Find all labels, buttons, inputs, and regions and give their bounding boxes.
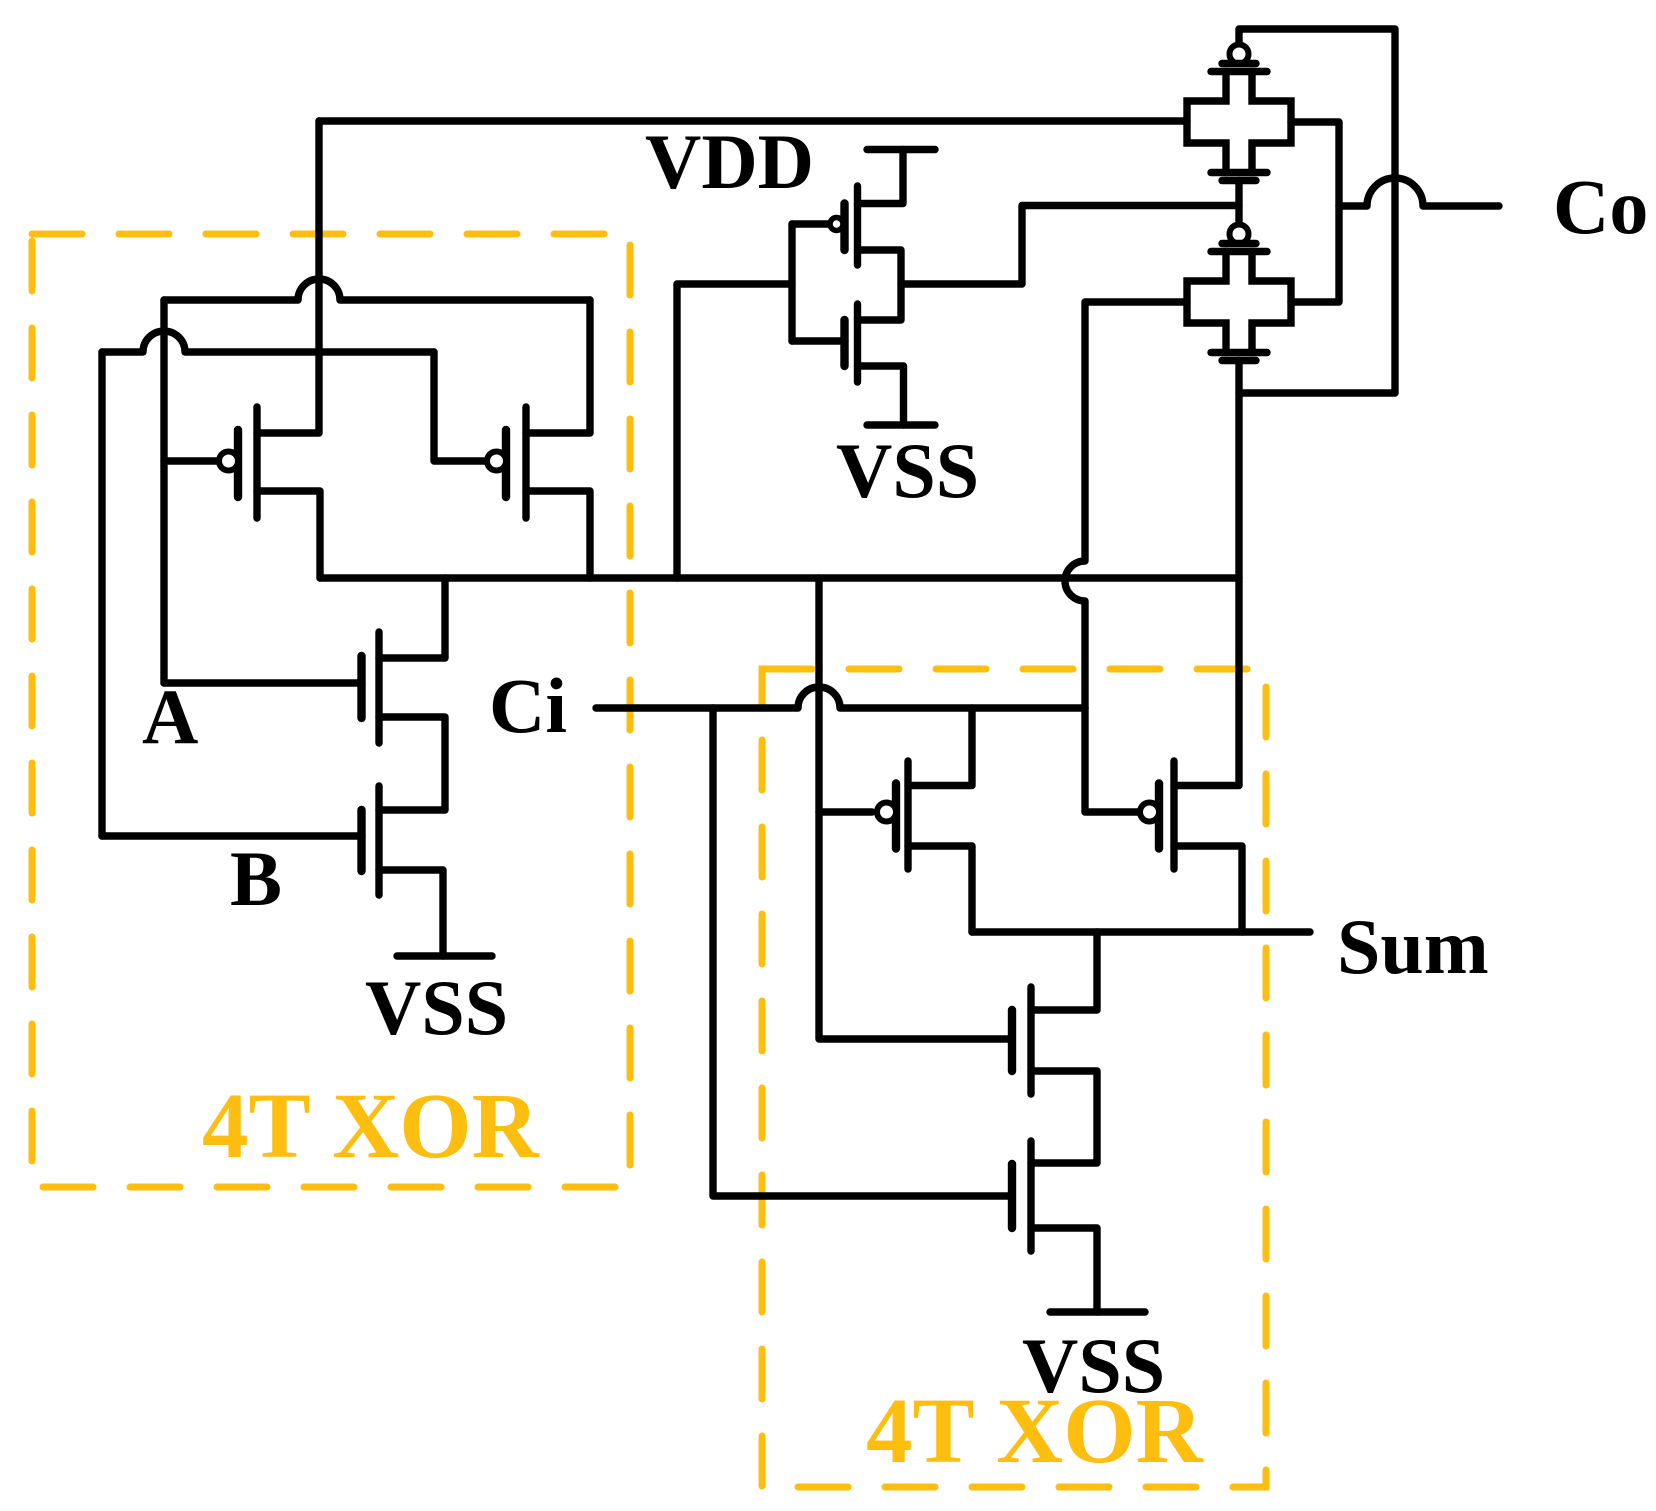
wire bus drop to P1R/N1R gates	[819, 578, 1012, 1039]
wire N1R drain riser to Sum	[1031, 932, 1097, 1010]
wire inverter input riser	[677, 284, 792, 578]
transistor P2R channel	[1170, 761, 1177, 869]
wire XOR output bus	[320, 574, 1239, 581]
transistor N1L gate bar	[357, 656, 365, 718]
transistor P1L bubble	[219, 452, 238, 471]
wire N1L gate (A)	[164, 679, 362, 686]
svg-text:Sum: Sum	[1337, 903, 1489, 990]
transistor N1R channel	[1027, 987, 1034, 1094]
transistor P1L gate bar	[234, 430, 242, 497]
wire P1L source drop to bus	[257, 491, 320, 578]
TG1 top long bar	[1211, 68, 1267, 75]
wire N1L source to N2L drain	[379, 717, 445, 810]
wire left vertical from rail to P1L drain, P1L top lead	[257, 121, 319, 433]
wire node n1 horizontal (hop over x=319)	[164, 279, 590, 300]
TG2 bottom long bar	[1211, 349, 1267, 356]
TG2 top short bar	[1222, 240, 1256, 247]
wire P1R gate stub	[819, 808, 872, 815]
wire TG right terminals	[1291, 122, 1339, 302]
wire P2R source to Sum	[1174, 846, 1242, 932]
wire n1 riser to P2L top lead	[526, 300, 590, 433]
left 4T XOR box	[32, 234, 630, 1187]
wire inverter NMOS gate stub	[792, 337, 845, 344]
transistor P1R channel	[904, 761, 911, 869]
wire N2L gate (B)	[102, 832, 362, 839]
transmission gate TG2 bubble	[1230, 225, 1249, 244]
wire TG feedback loop	[1239, 29, 1395, 393]
transistor P2L gate bar	[502, 430, 510, 497]
wire N2R source drop	[1031, 1228, 1097, 1312]
wire Ci drop to N2R gate	[713, 708, 1012, 1196]
svg-text:4T XOR: 4T XOR	[866, 1380, 1204, 1483]
transistor inv NMOS channel	[854, 304, 861, 382]
wire B net vertical	[98, 352, 105, 836]
wire down to P2R gate	[1085, 708, 1141, 812]
VDD supply bar	[867, 146, 935, 153]
svg-text:VSS: VSS	[365, 964, 508, 1051]
wire top rail	[319, 117, 1187, 124]
transistor P2L channel	[522, 407, 529, 518]
wire inverter output node	[858, 250, 902, 320]
wire P1L gate stub	[164, 457, 219, 464]
ground bar left VSS	[397, 952, 492, 959]
transistor N1R gate bar	[1008, 1010, 1016, 1071]
wire TG2 left terminal down (hop over bus)	[1065, 302, 1187, 708]
wire N2L source drop	[379, 870, 443, 956]
TG2 top long bar	[1211, 248, 1267, 255]
wire TG1-TG2 middle gate stubs	[1235, 181, 1242, 225]
transistor inv PMOS gate bar	[840, 204, 848, 251]
transistor P2R bubble	[1140, 803, 1159, 822]
TG2 bottom short bar	[1222, 357, 1256, 364]
wire VDD stem + inv PMOS source lead	[858, 150, 904, 204]
wire Co output (hop over x=1395)	[1339, 178, 1499, 206]
svg-text:Co: Co	[1553, 163, 1648, 250]
wire N1R source to N2R drain	[1031, 1071, 1097, 1163]
transistor inv NMOS gate bar	[840, 320, 848, 366]
ground bar right VSS	[1050, 1308, 1145, 1315]
wire inverter PMOS gate stub	[792, 220, 830, 227]
wire Ci input (hop over x=819)	[596, 687, 1085, 708]
TG1 bottom short bar	[1222, 177, 1256, 184]
wire P1R source to Sum corner	[908, 846, 972, 932]
transistor N1L channel	[375, 632, 382, 743]
wire TG2 bottom stub down to P2R drain lead	[1174, 361, 1239, 786]
transistor P1R gate bar	[892, 784, 900, 849]
wire Sum output	[972, 928, 1310, 935]
wire P2L source drop to bus	[526, 491, 590, 578]
wire A net vertical	[160, 300, 167, 683]
svg-text:VSS: VSS	[836, 427, 979, 514]
wire inverter gate tie bar	[788, 224, 795, 341]
svg-text:VDD: VDD	[645, 118, 814, 205]
wire node n2 horizontal (hop over x=164)	[102, 331, 434, 352]
transistor P2L bubble	[487, 452, 506, 471]
transistor P1L channel	[253, 407, 260, 518]
wire inverter output to TG gates	[901, 206, 1239, 285]
transistor N2R gate bar	[1008, 1164, 1016, 1228]
TG1 bottom long bar	[1211, 169, 1267, 176]
wire Ci drop to P1R drain lead	[908, 708, 972, 786]
wire n2 drop to P2L gate	[434, 352, 487, 461]
svg-text:A: A	[142, 673, 198, 760]
transistor P1R bubble	[877, 803, 896, 822]
transistor inv PMOS bubble	[830, 218, 843, 231]
ground bar middle VSS	[867, 421, 935, 428]
transmission gate TG1 bubble	[1230, 45, 1249, 64]
right 4T XOR box	[762, 669, 1266, 1487]
transistor inv PMOS channel	[854, 186, 861, 265]
TG2 cross body	[1187, 252, 1291, 353]
transistor N2R channel	[1027, 1141, 1034, 1251]
svg-text:B: B	[230, 835, 282, 922]
wire inv NMOS source drop	[858, 366, 904, 425]
TG1 top short bar	[1222, 60, 1256, 67]
wire N1L drain riser	[379, 578, 445, 658]
transistor N2L channel	[375, 786, 382, 895]
TG1 cross body	[1187, 72, 1291, 173]
transistor N2L gate bar	[357, 810, 365, 871]
transistor P2R gate bar	[1155, 784, 1163, 849]
svg-text:4T XOR: 4T XOR	[202, 1075, 540, 1178]
svg-text:Ci: Ci	[489, 662, 567, 749]
